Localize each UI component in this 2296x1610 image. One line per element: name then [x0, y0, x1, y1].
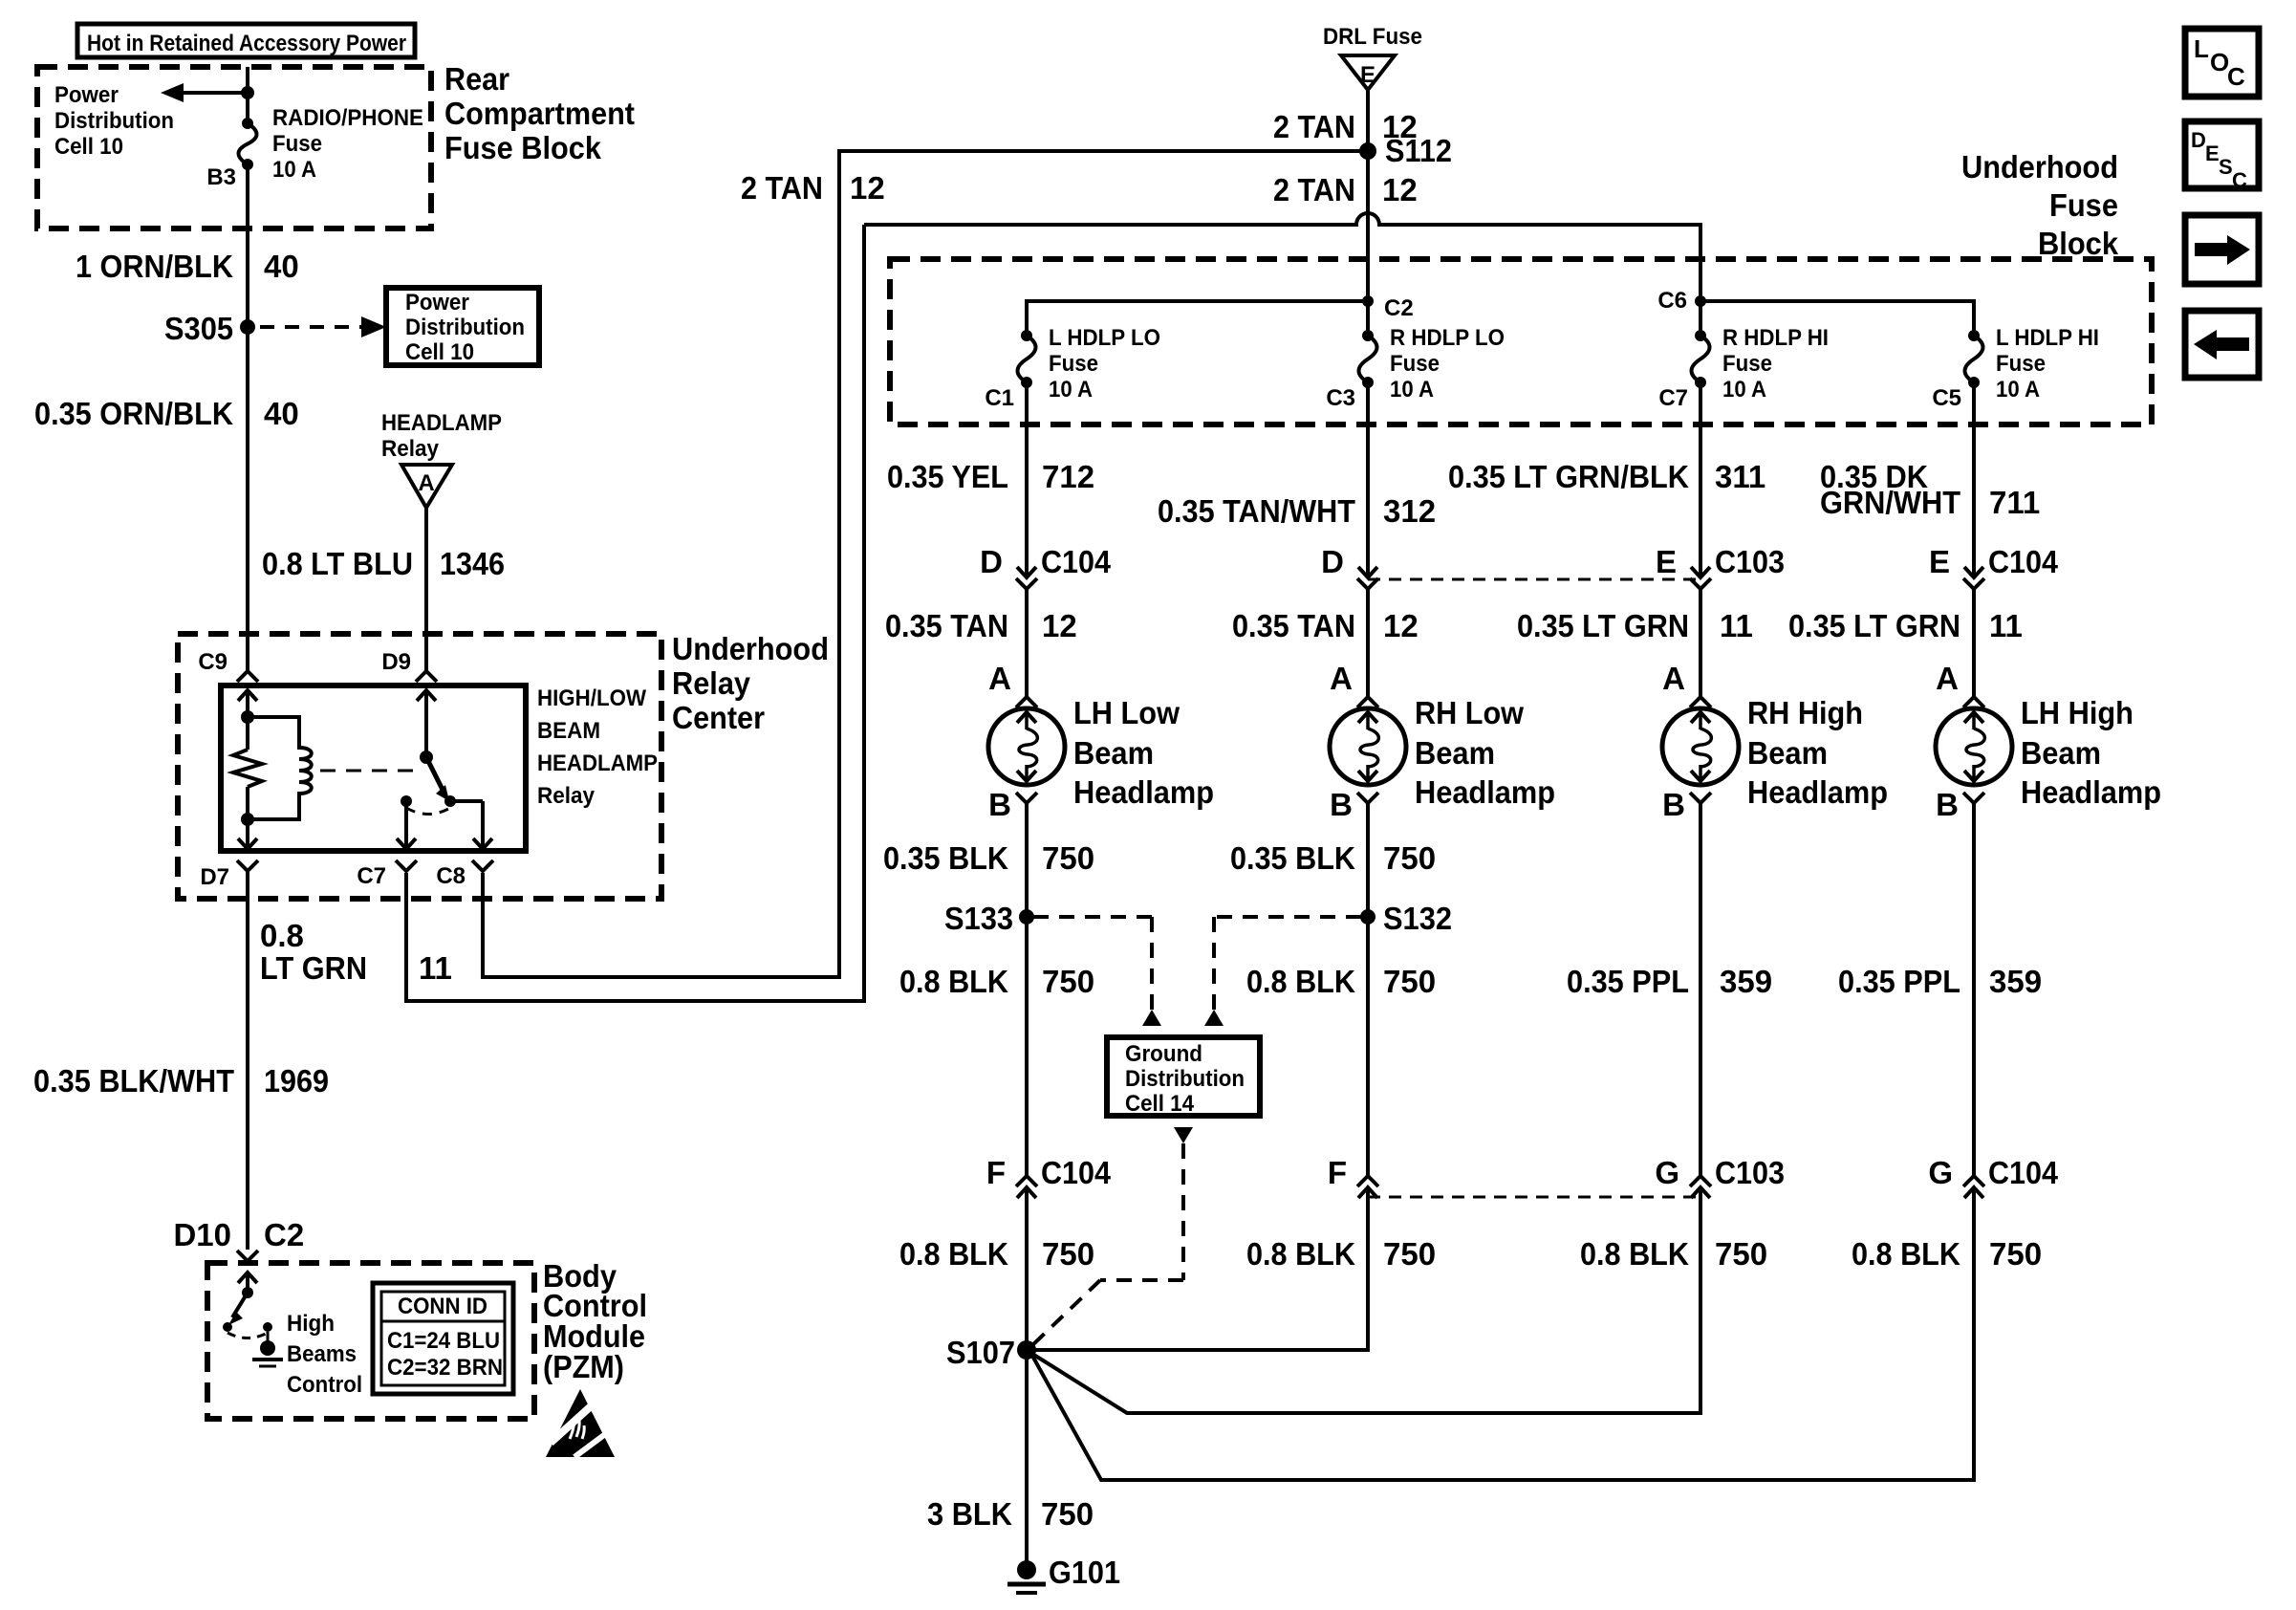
- wire from Hot bus into fuse block: [246, 67, 249, 123]
- svg-text:A: A: [1662, 661, 1685, 696]
- svg-text:C7: C7: [1658, 385, 1688, 411]
- Body Control Module (dashed box): [207, 1263, 534, 1419]
- high beams control switch blade: [232, 1293, 248, 1317]
- svg-text:12: 12: [850, 170, 885, 206]
- svg-text:GRN/WHT: GRN/WHT: [1820, 485, 1960, 520]
- svg-text:C1=24 BLU: C1=24 BLU: [387, 1328, 500, 1354]
- connector E C103: [1691, 567, 1710, 577]
- svg-text:10 A: 10 A: [1049, 377, 1093, 402]
- node switch top: [242, 1287, 253, 1298]
- node C2: [1362, 295, 1374, 307]
- svg-text:10 A: 10 A: [1996, 377, 2040, 402]
- svg-text:0.35 LT GRN: 0.35 LT GRN: [1788, 608, 1960, 643]
- pin D7: [237, 860, 258, 871]
- svg-text:Cell 10: Cell 10: [405, 339, 474, 365]
- Underhood Fuse Block (dashed box): [890, 259, 2152, 424]
- switch contact right: [263, 1322, 272, 1332]
- svg-text:C103: C103: [1715, 1155, 1785, 1190]
- svg-text:3 BLK: 3 BLK: [927, 1496, 1012, 1532]
- svg-text:Relay: Relay: [381, 436, 440, 462]
- svg-text:S: S: [2219, 155, 2233, 179]
- wire contact to C7: [404, 801, 408, 849]
- svg-text:1346: 1346: [440, 546, 505, 581]
- wire C8 to S112 (2 TAN 12): [483, 151, 1368, 977]
- wire col1 to S107: [1025, 1201, 1029, 1561]
- svg-text:Cell 10: Cell 10: [54, 134, 123, 160]
- svg-text:11: 11: [1989, 608, 2023, 643]
- wire R HDLP LO fuse feed: [1366, 301, 1370, 336]
- svg-text:750: 750: [1042, 1236, 1094, 1272]
- svg-text:Center: Center: [672, 700, 765, 735]
- svg-text:0.35 PPL: 0.35 PPL: [1838, 964, 1960, 999]
- fuse R HDLP LO 10 A: [1362, 330, 1374, 341]
- svg-text:Compartment: Compartment: [444, 96, 635, 131]
- icon box forward arrow: [2185, 215, 2259, 284]
- wire bulb B RH high: [1699, 803, 1702, 1177]
- headlamp bulb LH High Beam: [1936, 708, 2012, 785]
- svg-text:High: High: [287, 1311, 335, 1337]
- svg-text:C6: C6: [1657, 288, 1687, 314]
- svg-text:S107: S107: [946, 1335, 1015, 1370]
- wire bulb B LH high: [1972, 803, 1976, 1177]
- svg-text:S112: S112: [1385, 133, 1452, 168]
- icon box DESC: [2185, 121, 2259, 188]
- svg-text:D: D: [2191, 128, 2206, 152]
- wire fuse output: [1972, 382, 1976, 577]
- dashed reference S132 to Ground Distribution: [1214, 915, 1361, 919]
- wire S305 to C9: [246, 327, 249, 670]
- svg-text:10 A: 10 A: [1390, 377, 1434, 402]
- svg-text:750: 750: [1715, 1236, 1767, 1272]
- svg-text:C104: C104: [1041, 544, 1112, 579]
- svg-text:C104: C104: [1988, 1155, 2059, 1190]
- wire D7 to D10 (0.35 BLK/WHT 1969): [246, 871, 249, 1250]
- svg-text:0.35 BLK/WHT: 0.35 BLK/WHT: [33, 1063, 234, 1099]
- off-page connector triangle E (DRL Fuse): [1341, 55, 1395, 90]
- svg-text:Fuse: Fuse: [1996, 351, 2046, 377]
- ground (High Beams Control): [267, 1332, 270, 1342]
- node switch pivot: [420, 751, 433, 764]
- svg-text:Headlamp: Headlamp: [2021, 774, 2161, 810]
- svg-text:C5: C5: [1932, 385, 1961, 411]
- svg-text:0.35 TAN: 0.35 TAN: [885, 608, 1008, 643]
- svg-text:750: 750: [1383, 840, 1436, 876]
- svg-text:40: 40: [264, 396, 299, 431]
- svg-text:Cell 14: Cell 14: [1125, 1091, 1195, 1117]
- wire B3 to S305: [246, 164, 249, 327]
- node C6: [1695, 295, 1706, 307]
- wire fuse output: [1366, 382, 1370, 577]
- svg-text:RADIO/PHONE: RADIO/PHONE: [272, 105, 423, 131]
- svg-text:F: F: [1328, 1155, 1347, 1190]
- pin B (RH High Beam): [1690, 793, 1711, 803]
- node S112: [1359, 142, 1376, 160]
- svg-text:Underhood: Underhood: [672, 631, 829, 666]
- svg-text:10 A: 10 A: [272, 157, 316, 183]
- svg-text:Beam: Beam: [1073, 735, 1154, 771]
- svg-text:A: A: [418, 470, 434, 496]
- connector F (lower): [1357, 1176, 1378, 1186]
- svg-text:0.35 TAN: 0.35 TAN: [1232, 608, 1355, 643]
- connector F C104 (lower): [1016, 1176, 1037, 1186]
- svg-text:Fuse: Fuse: [2049, 187, 2118, 223]
- svg-text:Power: Power: [405, 290, 469, 315]
- power label box "Hot in Retained Accessory Power": [77, 24, 415, 57]
- svg-text:LH Low: LH Low: [1073, 695, 1180, 730]
- svg-text:0.35 BLK: 0.35 BLK: [883, 840, 1008, 876]
- svg-text:HEADLAMP: HEADLAMP: [381, 410, 502, 436]
- svg-text:Relay: Relay: [537, 783, 596, 809]
- relay HIGH/LOW BEAM HEADLAMP (box): [221, 685, 526, 851]
- headlamp bulb RH Low Beam: [1330, 708, 1406, 785]
- relay coil input arrow: [238, 690, 257, 701]
- wire relay feed to C6 with crossover hop: [864, 213, 1700, 301]
- wire col2 to S107: [1034, 1201, 1368, 1350]
- svg-text:750: 750: [1042, 840, 1094, 876]
- dashed actuation link: [320, 770, 417, 772]
- svg-text:C: C: [2232, 168, 2247, 192]
- node S305: [240, 319, 255, 335]
- svg-text:Headlamp: Headlamp: [1747, 774, 1888, 810]
- svg-text:R HDLP HI: R HDLP HI: [1722, 325, 1829, 351]
- svg-text:312: 312: [1383, 493, 1436, 529]
- node S133: [1019, 909, 1034, 925]
- svg-text:RH High: RH High: [1747, 695, 1863, 730]
- svg-text:750: 750: [1989, 1236, 2042, 1272]
- svg-text:D: D: [980, 544, 1003, 579]
- wire C2 to L HDLP LO fuse: [1027, 301, 1368, 336]
- svg-text:CONN ID: CONN ID: [398, 1294, 487, 1319]
- svg-text:Fuse: Fuse: [272, 131, 322, 157]
- switch contact left: [223, 1322, 232, 1332]
- svg-text:Control: Control: [287, 1372, 362, 1398]
- svg-text:0.35 BLK: 0.35 BLK: [1230, 840, 1355, 876]
- wire triangle A to D9: [424, 508, 428, 670]
- fuse L HDLP LO 10 A: [1021, 330, 1032, 341]
- svg-text:0.35 TAN/WHT: 0.35 TAN/WHT: [1158, 493, 1355, 529]
- svg-text:12: 12: [1383, 608, 1419, 643]
- svg-text:Beam: Beam: [1747, 735, 1828, 771]
- resistor (relay suppression): [246, 717, 249, 750]
- svg-text:0.8 BLK: 0.8 BLK: [1580, 1236, 1689, 1272]
- fuse L HDLP HI 10 A: [1968, 330, 1980, 341]
- svg-text:2 TAN: 2 TAN: [741, 170, 823, 206]
- svg-text:Hot in Retained Accessory Powe: Hot in Retained Accessory Power: [87, 31, 406, 56]
- svg-text:L HDLP LO: L HDLP LO: [1049, 325, 1160, 351]
- svg-text:Rear: Rear: [444, 61, 509, 97]
- svg-text:Relay: Relay: [672, 665, 751, 701]
- reference box Ground Distribution Cell 14: [1107, 1037, 1260, 1116]
- svg-text:750: 750: [1383, 964, 1436, 999]
- icon box back arrow: [2185, 311, 2259, 378]
- pin B (LH Low Beam): [1016, 793, 1037, 803]
- svg-text:Beam: Beam: [1415, 735, 1495, 771]
- svg-text:0.35 LT GRN: 0.35 LT GRN: [1517, 608, 1689, 643]
- svg-text:G101: G101: [1049, 1555, 1120, 1590]
- svg-text:Headlamp: Headlamp: [1415, 774, 1555, 810]
- svg-text:D7: D7: [200, 864, 229, 890]
- svg-text:BEAM: BEAM: [537, 718, 600, 744]
- svg-text:E: E: [1656, 544, 1677, 579]
- svg-text:C2: C2: [264, 1217, 304, 1252]
- svg-text:C3: C3: [1326, 385, 1355, 411]
- svg-text:0.35 LT GRN/BLK: 0.35 LT GRN/BLK: [1448, 459, 1689, 494]
- svg-text:S132: S132: [1383, 901, 1452, 936]
- wire coil to D7 arrow: [246, 819, 249, 849]
- svg-text:359: 359: [1720, 964, 1772, 999]
- svg-text:0.8 BLK: 0.8 BLK: [899, 1236, 1008, 1272]
- svg-text:Distribution: Distribution: [405, 315, 525, 340]
- svg-text:B3: B3: [206, 164, 236, 190]
- Rear Compartment Fuse Block (dashed box): [37, 67, 431, 228]
- svg-text:711: 711: [1989, 485, 2040, 520]
- svg-text:12: 12: [1382, 172, 1418, 207]
- wire S133 to F: [1025, 917, 1029, 1177]
- svg-text:2 TAN: 2 TAN: [1273, 172, 1355, 207]
- dashed arrow to Power Distribution Cell 10: [260, 325, 363, 329]
- svg-text:Distribution: Distribution: [1125, 1066, 1245, 1092]
- svg-text:359: 359: [1989, 964, 2042, 999]
- svg-text:F: F: [986, 1155, 1006, 1190]
- svg-text:R HDLP LO: R HDLP LO: [1390, 325, 1505, 351]
- svg-text:C8: C8: [436, 863, 466, 889]
- svg-text:B: B: [1936, 787, 1959, 822]
- svg-text:2 TAN: 2 TAN: [1273, 109, 1355, 144]
- svg-text:C7: C7: [357, 863, 386, 889]
- BCM input arrow: [238, 1273, 257, 1283]
- svg-text:C2=32 BRN: C2=32 BRN: [387, 1355, 503, 1381]
- connector G C103 (lower): [1690, 1176, 1711, 1186]
- svg-text:C: C: [2227, 62, 2245, 91]
- svg-text:40: 40: [264, 249, 299, 284]
- svg-text:G: G: [1928, 1155, 1953, 1190]
- switch contact (high): [401, 795, 412, 807]
- svg-text:1 ORN/BLK: 1 ORN/BLK: [76, 249, 233, 284]
- svg-text:G: G: [1655, 1155, 1679, 1190]
- svg-text:B: B: [988, 787, 1011, 822]
- ESD sensitivity symbol: [546, 1389, 615, 1457]
- node junction to Power Distribution: [241, 86, 254, 99]
- svg-text:C2: C2: [1384, 295, 1414, 321]
- pin C8: [472, 860, 493, 871]
- fuse RADIO/PHONE 10 A: [242, 118, 253, 129]
- arrow to Power Distribution Cell 10: [184, 91, 248, 95]
- pin C7: [396, 860, 417, 871]
- svg-text:0.8 BLK: 0.8 BLK: [1246, 964, 1355, 999]
- svg-text:0.35 PPL: 0.35 PPL: [1567, 964, 1689, 999]
- dashed contact arc: [227, 1333, 268, 1338]
- svg-text:11: 11: [1720, 608, 1753, 643]
- wire fuse output: [1025, 382, 1029, 577]
- svg-text:C9: C9: [198, 649, 227, 675]
- svg-text:S133: S133: [944, 901, 1013, 936]
- svg-text:Fuse Block: Fuse Block: [444, 130, 602, 165]
- svg-text:0.8 BLK: 0.8 BLK: [1246, 1236, 1355, 1272]
- ground G101: [1017, 1560, 1036, 1579]
- wire col3 to S107: [1032, 1201, 1700, 1413]
- svg-text:750: 750: [1041, 1496, 1094, 1532]
- svg-text:0.8 BLK: 0.8 BLK: [1852, 1236, 1960, 1272]
- node S132: [1360, 909, 1375, 925]
- fuse R HDLP HI 10 A: [1695, 330, 1706, 341]
- node coil bottom: [241, 813, 254, 826]
- relay switch common from D9: [417, 690, 436, 701]
- svg-text:11: 11: [419, 950, 452, 986]
- svg-text:Beam: Beam: [2021, 735, 2101, 771]
- svg-text:Beams: Beams: [287, 1341, 357, 1367]
- svg-text:0.35 ORN/BLK: 0.35 ORN/BLK: [34, 396, 233, 431]
- svg-text:B: B: [1662, 787, 1685, 822]
- wire contact to C8: [450, 799, 483, 803]
- dashed reference S133 to Ground Distribution: [1033, 915, 1152, 919]
- svg-text:D: D: [1321, 544, 1344, 579]
- svg-text:Power: Power: [54, 82, 119, 108]
- svg-text:DRL Fuse: DRL Fuse: [1323, 24, 1422, 50]
- svg-text:0.8 LT BLU: 0.8 LT BLU: [262, 546, 413, 581]
- connector E C104: [1964, 567, 1983, 577]
- svg-text:311: 311: [1715, 459, 1765, 494]
- headlamp bulb LH Low Beam: [988, 708, 1065, 785]
- wire bulb B LH low: [1025, 803, 1029, 917]
- svg-text:Fuse: Fuse: [1049, 351, 1098, 377]
- svg-text:712: 712: [1042, 459, 1094, 494]
- wire S132 to F: [1366, 917, 1370, 1177]
- relay switch blade: [426, 757, 444, 792]
- svg-text:E: E: [1360, 62, 1375, 88]
- svg-text:E: E: [1929, 544, 1950, 579]
- svg-text:Underhood: Underhood: [1961, 149, 2118, 185]
- wire S112 to C2: [1366, 151, 1370, 301]
- pin B (LH High Beam): [1963, 793, 1984, 803]
- svg-text:S305: S305: [164, 311, 233, 346]
- svg-text:12: 12: [1042, 608, 1077, 643]
- wire DRL fuse to S112: [1366, 90, 1370, 151]
- svg-text:750: 750: [1383, 1236, 1436, 1272]
- svg-text:10 A: 10 A: [1722, 377, 1766, 402]
- wire C6 down: [1699, 301, 1702, 336]
- svg-text:Block: Block: [2038, 226, 2119, 261]
- node S107: [1017, 1340, 1036, 1360]
- connector G C104 (lower): [1963, 1176, 1984, 1186]
- svg-text:Fuse: Fuse: [1722, 351, 1772, 377]
- svg-text:Fuse: Fuse: [1390, 351, 1440, 377]
- node coil top: [241, 710, 254, 724]
- svg-text:HIGH/LOW: HIGH/LOW: [537, 685, 646, 711]
- svg-text:L HDLP HI: L HDLP HI: [1996, 325, 2099, 351]
- svg-text:1969: 1969: [264, 1063, 329, 1099]
- off-page connector triangle A (HEADLAMP Relay): [401, 465, 452, 508]
- svg-text:(PZM): (PZM): [543, 1349, 624, 1384]
- dashed connector link F-G (C103): [1368, 1196, 1700, 1199]
- icon box LOC: [2185, 29, 2259, 97]
- svg-text:0.8: 0.8: [260, 918, 304, 953]
- reference box Power Distribution Cell 10: [386, 288, 539, 365]
- svg-text:Headlamp: Headlamp: [1073, 774, 1214, 810]
- switch contact (low): [444, 795, 456, 807]
- svg-text:C104: C104: [1988, 544, 2059, 579]
- svg-text:E: E: [2205, 141, 2220, 165]
- svg-text:B: B: [1330, 787, 1353, 822]
- svg-text:A: A: [1330, 661, 1353, 696]
- svg-text:D9: D9: [381, 649, 411, 675]
- svg-text:C103: C103: [1715, 544, 1785, 579]
- dashed connector link D-E (C103): [1368, 578, 1700, 581]
- Underhood Relay Center (dashed box): [178, 634, 661, 899]
- svg-text:0.8 BLK: 0.8 BLK: [899, 964, 1008, 999]
- relay coil winding: [248, 717, 312, 819]
- svg-text:LH High: LH High: [2021, 695, 2134, 730]
- wire C6 to L HDLP HI fuse: [1700, 301, 1974, 336]
- svg-text:D10: D10: [173, 1217, 231, 1252]
- svg-text:Ground: Ground: [1125, 1041, 1202, 1067]
- svg-text:C1: C1: [985, 385, 1014, 411]
- dashed reference Ground Distribution to S107: [1174, 1127, 1193, 1143]
- svg-text:L: L: [2194, 34, 2209, 63]
- svg-text:0.35 YEL: 0.35 YEL: [887, 459, 1008, 494]
- wire bulb B RH low: [1366, 803, 1370, 917]
- svg-text:LT GRN: LT GRN: [260, 950, 367, 986]
- svg-text:RH Low: RH Low: [1415, 695, 1524, 730]
- wire col4 to S107: [1032, 1201, 1974, 1480]
- wire fuse output: [1699, 382, 1702, 577]
- svg-text:A: A: [1936, 661, 1959, 696]
- svg-text:750: 750: [1042, 964, 1094, 999]
- svg-text:A: A: [988, 661, 1011, 696]
- connector D: [1358, 567, 1377, 577]
- svg-text:Distribution: Distribution: [54, 108, 174, 134]
- CONN ID table: [373, 1283, 513, 1394]
- svg-text:HEADLAMP: HEADLAMP: [537, 751, 658, 776]
- headlamp bulb RH High Beam: [1662, 708, 1739, 785]
- wire C7 to underhood feed (0.8 LT GRN 11): [406, 225, 864, 1001]
- svg-text:C104: C104: [1041, 1155, 1112, 1190]
- connector D C104: [1017, 567, 1036, 577]
- pin B (RH Low Beam): [1357, 793, 1378, 803]
- dashed contact arc: [406, 808, 450, 815]
